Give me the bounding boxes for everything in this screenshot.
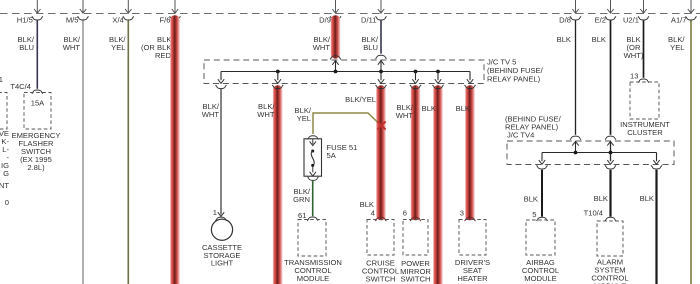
svg-text:BLK: BLK: [594, 194, 608, 203]
red highlighted wire to transmission area: [273, 85, 283, 284]
connector cruise pin 4: [375, 217, 386, 221]
fuse arrow bottom: [310, 172, 316, 176]
connector below J/C TV5 x277.7: [272, 85, 283, 89]
power mirror switch box: [403, 220, 428, 256]
svg-text:WHT: WHT: [63, 43, 81, 52]
junction connector J/C TV4 box: [507, 141, 674, 165]
svg-text:13: 13: [630, 72, 638, 81]
arrowhead at D/11: [378, 9, 384, 13]
connector E/2 above J/C TV4: [605, 136, 616, 140]
connector TCM pin 61: [307, 217, 318, 221]
junction dot D/9: [334, 70, 338, 74]
svg-text:WHT: WHT: [313, 43, 331, 52]
svg-text:WHT: WHT: [257, 110, 275, 119]
wire BLK/WHT to cassette light: [220, 89, 222, 215]
fuse lead bottom: [312, 166, 314, 172]
red highlighted wire D/9 (BLK/WHT): [331, 15, 341, 58]
svg-text:SWITCH: SWITCH: [366, 274, 396, 283]
connector below J/C TV4 x542: [537, 165, 548, 169]
svg-text:BLU: BLU: [363, 43, 378, 52]
wire BLK/YEL from A1/7: [690, 21, 692, 284]
connector cassette pin: [216, 217, 227, 221]
connector cluster pin 13: [638, 79, 649, 83]
transmission control module box: [298, 220, 326, 257]
wire into connector D/9: [335, 0, 337, 13]
junction dot D/8 bus: [574, 151, 578, 155]
connector T4C/4: [32, 90, 43, 94]
fuse 51 box: [304, 139, 322, 176]
wire BLK/GRN: [312, 181, 314, 216]
red highlighted wire to seat heater: [465, 85, 475, 220]
svg-text:H1/5: H1/5: [17, 16, 33, 25]
stub D/9 to bus: [335, 61, 337, 72]
wire BLK from E/2: [610, 21, 612, 135]
stub down from bus x277.8: [277, 72, 279, 81]
stub D/11 to bus: [380, 61, 382, 72]
arrowhead at F/6: [172, 9, 178, 13]
wire into connector M/5: [82, 0, 84, 13]
junction dot D/11: [379, 70, 383, 74]
connector M/5: [78, 16, 89, 20]
connector heater pin 3: [465, 217, 476, 221]
svg-text:G: G: [3, 169, 9, 178]
wire into connector D/11: [380, 0, 382, 13]
arrowhead at A1/7: [688, 9, 694, 13]
fuse arrow top: [310, 141, 316, 145]
red highlighted wire to power mirror switch: [411, 85, 421, 220]
connector below J/C TV5 x438: [433, 85, 444, 89]
svg-text:1: 1: [213, 208, 217, 217]
svg-text:M/5: M/5: [66, 16, 79, 25]
airbag control module box: [526, 220, 555, 255]
arrowhead at E/2: [607, 9, 613, 13]
fuse element squiggle: [311, 151, 314, 165]
connector airbag pin 5: [537, 217, 548, 221]
svg-text:U2/1: U2/1: [623, 16, 639, 25]
connector below J/C TV4 x656.5: [651, 165, 662, 169]
wire BLK continuing down right: [655, 170, 657, 284]
connector H1/5: [32, 16, 43, 20]
svg-text:SWITCH: SWITCH: [401, 275, 431, 284]
svg-text:WHT: WHT: [202, 110, 220, 119]
arrow E/2 into J/C TV4: [607, 141, 613, 145]
connector D/11 above J/C TV5: [376, 55, 387, 59]
wire BLK to airbag module: [541, 170, 543, 217]
wire into connector F/6: [174, 0, 176, 13]
wire into connector E/2: [610, 0, 612, 13]
svg-text:61: 61: [298, 211, 306, 220]
fuse terminal dot bottom: [311, 164, 314, 167]
stub E/2 through box: [610, 141, 612, 161]
svg-text:MODULE: MODULE: [524, 274, 557, 283]
arrowhead at U2/1: [640, 9, 646, 13]
svg-text:T4C/4: T4C/4: [10, 82, 31, 91]
connector E/2: [605, 16, 616, 20]
svg-text:BLK/YEL: BLK/YEL: [345, 95, 376, 104]
svg-text:WHT: WHT: [396, 111, 414, 120]
wire BLK/BLU from D/11: [380, 21, 382, 54]
svg-text:D/8: D/8: [559, 16, 571, 25]
arrowhead at X/4: [125, 9, 131, 13]
stub down from bus x381b: [380, 72, 382, 81]
arrowhead at D/8: [572, 9, 578, 13]
cruise control switch box: [367, 220, 394, 256]
alarm system control module box: [597, 221, 623, 256]
arrowhead at H1/5: [34, 9, 40, 13]
svg-text:MODULE: MODULE: [297, 274, 330, 283]
arrow exit J/C TV5 x438: [435, 79, 441, 83]
svg-text:4: 4: [371, 208, 375, 217]
svg-text:BLK: BLK: [640, 194, 654, 203]
wire BLK/BLU from H1/5: [36, 21, 38, 89]
arrow D/11 into J/C TV5: [378, 61, 384, 65]
connector below J/C TV5 x470: [465, 85, 476, 89]
wire into connector X/4: [127, 0, 129, 13]
connector below J/C TV4 x610.5: [605, 165, 616, 169]
junction dot at x277.8: [276, 70, 280, 74]
svg-text:BLK: BLK: [592, 35, 606, 44]
bus wire inside J/C TV4: [542, 152, 657, 154]
svg-text:WHT): WHT): [624, 51, 644, 60]
svg-text:BLK: BLK: [422, 104, 436, 113]
junction connector J/C TV5 box: [204, 60, 484, 84]
svg-text:D/9: D/9: [319, 16, 331, 25]
svg-text:BLK: BLK: [456, 104, 470, 113]
svg-text:BLK: BLK: [557, 35, 571, 44]
svg-text:HEATER: HEATER: [457, 274, 488, 283]
svg-text:15A: 15A: [31, 99, 45, 108]
fuse terminal dot top: [311, 149, 314, 152]
wire BLK/WHT from M/5: [82, 21, 84, 284]
svg-text:RELAY PANEL): RELAY PANEL): [487, 75, 541, 84]
connector above fuse 51: [308, 136, 319, 140]
arrow exit airbag: [539, 160, 545, 164]
connector below J/C TV5 x381: [376, 85, 387, 89]
wire BLK/YEL from X/4: [127, 21, 129, 284]
svg-text:1: 1: [0, 75, 3, 84]
arrow exit alarm: [607, 160, 613, 164]
svg-text:5A: 5A: [327, 151, 337, 160]
connector A1/7: [686, 16, 697, 20]
svg-text:YEL: YEL: [670, 43, 684, 52]
arrowhead at M/5: [80, 9, 86, 13]
red highlighted wire continuing down: [433, 85, 443, 284]
stub D/8 to bus: [575, 141, 577, 152]
arrowhead at D/9: [332, 9, 338, 13]
connector alarm pin T10/4: [605, 217, 616, 221]
svg-text:X/4: X/4: [112, 16, 123, 25]
connector below J/C TV5 x415.5: [410, 85, 421, 89]
wire into connector U2/1: [643, 0, 645, 13]
connector U2/1: [638, 16, 649, 20]
svg-text:6: 6: [403, 208, 407, 217]
junction dot at x438: [436, 70, 440, 74]
svg-text:LIGHT: LIGHT: [211, 259, 234, 268]
junction dot at x415.5: [414, 70, 418, 74]
wire into connector D/8: [575, 0, 577, 13]
svg-text:J/C TV4: J/C TV4: [507, 131, 534, 140]
fuse lead top: [312, 139, 314, 144]
cassette storage light bulb: [211, 219, 232, 240]
stub down right exit: [656, 153, 658, 162]
connector X/4: [123, 16, 134, 20]
partial component box at left edge: [0, 93, 7, 130]
red highlighted wire to cruise switch: [376, 85, 386, 220]
stub down from bus x415.5: [415, 72, 417, 81]
junction dot E/2 bus: [609, 151, 613, 155]
connector D/9: [330, 16, 341, 20]
arrow exit J/C TV5 x415.5: [412, 79, 418, 83]
wire into connector A1/7: [690, 0, 692, 13]
stub down from bus x438: [437, 72, 439, 81]
arrow D/9 into J/C TV5: [332, 61, 338, 65]
harness dashed line (top): [0, 13, 700, 15]
wire into connector H1/5: [36, 0, 38, 13]
arrow at cassette pin: [218, 212, 224, 216]
svg-text:2.8L): 2.8L): [27, 163, 45, 172]
fuse 15A box: [24, 93, 51, 130]
connector F/6: [170, 16, 181, 20]
connector D/8: [570, 16, 581, 20]
connector D/11: [376, 16, 387, 20]
connector D/9 above J/C TV5: [330, 56, 341, 60]
svg-text:E/2: E/2: [595, 16, 606, 25]
svg-text:F/6: F/6: [160, 16, 171, 25]
arrow exit J/C TV5 x221: [218, 79, 224, 83]
svg-text:T10/4: T10/4: [584, 209, 603, 218]
connector below J/C TV5 x221: [216, 85, 227, 89]
wire BLK(OR WHT) from U2/1: [643, 21, 645, 78]
svg-text:BLK: BLK: [524, 195, 538, 204]
wire BLK from D/8: [575, 21, 577, 135]
svg-text:YEL: YEL: [111, 43, 125, 52]
connector mirror pin 6: [410, 217, 421, 221]
wire BLK/YEL branch to fuse 51: [313, 113, 381, 134]
stub down from bus x221: [220, 72, 222, 81]
svg-text:3: 3: [460, 208, 464, 217]
svg-text:5: 5: [532, 210, 536, 219]
svg-text:D/11: D/11: [361, 16, 376, 25]
svg-text:BLU: BLU: [19, 43, 34, 52]
connector below fuse 51: [308, 177, 319, 181]
drivers seat heater box: [459, 220, 486, 256]
arrow exit right: [653, 160, 659, 164]
svg-text:NT: NT: [0, 181, 9, 190]
instrument cluster box: [630, 82, 659, 119]
svg-text:A1/7: A1/7: [671, 16, 687, 25]
splice X marker: [377, 122, 385, 130]
svg-text:GRN: GRN: [293, 195, 310, 204]
svg-text:0: 0: [5, 198, 9, 207]
bus wire inside J/C TV5: [221, 71, 470, 73]
svg-text:CLUSTER: CLUSTER: [627, 128, 663, 137]
arrow exit J/C TV5 x470: [467, 79, 473, 83]
arrow exit J/C TV5 x277.8: [275, 79, 281, 83]
wire BLK to alarm module: [609, 170, 611, 217]
stub down to airbag exit: [541, 153, 543, 162]
connector D/8 above J/C TV4: [570, 136, 581, 140]
arrow exit J/C TV5 x381: [378, 79, 384, 83]
arrow D/8 into J/C TV4: [572, 141, 578, 145]
stub down from bus x470: [469, 72, 471, 81]
red highlighted wire F/6 (BLK OR BLK/RED): [170, 15, 180, 284]
svg-text:YEL: YEL: [297, 114, 311, 123]
